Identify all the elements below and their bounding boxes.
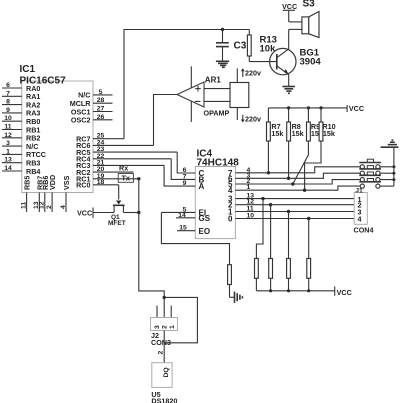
svg-text:IC1: IC1 [20, 64, 36, 75]
IC1 bottom pin 13 RB7 [33, 176, 44, 212]
IC1 left pin 13 RB3 [2, 157, 40, 168]
IC4 pin 13 row (output 3) to CON4 [235, 193, 354, 200]
svg-text:4: 4 [358, 215, 362, 224]
svg-text:2: 2 [158, 351, 165, 355]
power VCC at Q1 source [77, 208, 93, 219]
svg-text:3904: 3904 [300, 56, 322, 67]
svg-text:RC0: RC0 [76, 181, 90, 190]
svg-text:74HC148: 74HC148 [197, 157, 240, 168]
wire RC5 to IC4 pin 6 C [177, 152, 204, 178]
svg-text:Tx: Tx [122, 174, 130, 183]
svg-text:220v: 220v [245, 69, 261, 78]
IC1 right pin 24 RC6 [76, 139, 153, 150]
IC4 pin 3 row (output 6) to switch SW2 [235, 172, 360, 179]
node junction Q1 drain [137, 211, 140, 214]
resistor pulldown 2 on output 2 [269, 205, 273, 291]
IC1 right pin 26 OSC2 [71, 114, 113, 125]
wire EI pulldown run [161, 212, 229, 264]
svg-text:1: 1 [6, 148, 10, 155]
IC4 pin 4 row (output 7) to switch SW1 [235, 167, 360, 174]
svg-text:11: 11 [4, 124, 11, 131]
svg-text:27: 27 [97, 106, 105, 113]
IC1 left pin 8 RA2 [2, 99, 40, 110]
svg-text:3: 3 [154, 325, 161, 329]
wire R13 to BG1 base [249, 61, 276, 63]
svg-text:VCC: VCC [337, 288, 352, 297]
node junction R7 row [267, 171, 270, 174]
svg-text:15k: 15k [323, 129, 335, 138]
svg-text:15k: 15k [292, 129, 304, 138]
svg-text:J1: J1 [355, 187, 363, 194]
IC1 PIC16C57 microcontroller [20, 64, 94, 193]
wire Tx net down to J2 [139, 179, 164, 318]
IC1 left pin 11 RB1 [2, 124, 40, 135]
svg-text:1: 1 [247, 184, 251, 191]
IC1 left pin 1 RTCC [2, 148, 46, 159]
IC4 pin 5 EI with pulldown wire [161, 206, 206, 217]
svg-text:VSS: VSS [62, 175, 71, 190]
svg-text:VCC: VCC [77, 209, 92, 218]
svg-text:CON3: CON3 [151, 338, 171, 347]
svg-text:VDD: VDD [48, 175, 57, 190]
node junction row 10 drop [307, 217, 310, 220]
svg-text:CON4: CON4 [354, 226, 374, 235]
op-amp positive supply stub [190, 66, 192, 88]
wire op-amp - input [204, 100, 230, 102]
switch SW1 [359, 159, 394, 169]
ground below EI resistor (rotated) [230, 292, 243, 303]
connector J1 CON4 [354, 187, 374, 234]
svg-text:VCC: VCC [282, 2, 297, 11]
IC1 left pin 9 RA3 [2, 107, 40, 118]
svg-text:13: 13 [4, 157, 12, 164]
IC1 bottom pin 12 RB6 [39, 176, 50, 212]
IC4 pin 12 row (output 2) to CON4 [235, 199, 354, 206]
svg-text:S3: S3 [303, 0, 316, 10]
svg-text:0: 0 [228, 215, 233, 224]
svg-text:MFET: MFET [108, 220, 126, 227]
svg-text:18: 18 [97, 179, 105, 186]
IC1 left pin 10 RB0 [2, 115, 40, 126]
IC1 bottom pin 11 RB5 [20, 176, 31, 212]
svg-text:A: A [199, 182, 205, 191]
IC4 pin 2 row (output 5) to switch SW3 [235, 178, 360, 185]
IC1 bottom pin 4 VSS [60, 175, 71, 212]
svg-text:7: 7 [6, 90, 10, 97]
svg-text:14: 14 [178, 212, 186, 219]
ground top right [381, 140, 399, 147]
IC1 right pin 18 RC0 [76, 179, 119, 190]
IC4 pin 10 row (output 0) to CON4 [235, 213, 354, 220]
node junction R10 row [303, 189, 306, 192]
wire RC3 to IC4 pin 9 A [164, 165, 204, 191]
wire VCC to Q1 [93, 212, 114, 214]
svg-text:6: 6 [6, 82, 10, 89]
svg-text:2: 2 [46, 205, 53, 209]
svg-text:GS: GS [199, 214, 211, 223]
sensor U5 DS1820 [151, 363, 177, 403]
op-amp negative supply stub [190, 101, 192, 122]
svg-text:10: 10 [247, 213, 255, 220]
svg-text:26: 26 [97, 114, 105, 121]
ground below C3 [216, 61, 229, 67]
resistor pulldown 3 on output 1 [287, 212, 291, 291]
svg-text:9: 9 [183, 180, 187, 187]
svg-text:8: 8 [6, 99, 10, 106]
node junctions on switch common [392, 165, 395, 168]
resistor pulldown 4 on output 0 [307, 219, 311, 291]
resistor EI pulldown [228, 265, 232, 298]
svg-text:RB5: RB5 [23, 176, 32, 190]
svg-text:AR1: AR1 [205, 76, 222, 85]
svg-text:5: 5 [99, 89, 103, 96]
IC1 right pin 22 RC4 [76, 153, 171, 164]
IC4 pin 1 row (output 4) to switch SW4 [235, 184, 360, 191]
IC1 bottom pin 2 VDD [46, 175, 57, 212]
IC4 pin 15 EO [177, 225, 210, 236]
IC1 right pin 25 RC7 [76, 133, 124, 144]
IC1 right pin 5 N/C [78, 89, 112, 100]
svg-text:11: 11 [20, 202, 27, 209]
svg-text:RB4: RB4 [26, 167, 40, 176]
IC1 right pin 21 RC3 [76, 159, 164, 170]
svg-text:4: 4 [60, 205, 67, 209]
wire RC0 to Q1 gate [118, 185, 120, 200]
pulldown rail to VCC [256, 286, 351, 297]
wire switch common to ground [393, 147, 395, 186]
svg-text:28: 28 [97, 97, 105, 104]
node junction R8 row [287, 177, 290, 180]
resistor R13 10k [247, 30, 277, 62]
IC1 body box [22, 81, 93, 193]
node junction row 11 drop [287, 210, 290, 213]
resonator bottom pin with 220v arrow label [237, 108, 261, 124]
resistor pulldown 1 on output 3 [255, 199, 264, 291]
svg-text:11: 11 [247, 206, 254, 213]
svg-text:DS1820: DS1820 [151, 396, 177, 403]
switch SW4 [359, 179, 394, 189]
IC1 left pin 14 RB4 [2, 165, 40, 176]
IC4 pin 11 row (output 1) to CON4 [235, 206, 354, 213]
IC1 left pin 7 RA1 [2, 90, 40, 101]
transistor Q1 MFET [108, 201, 126, 228]
resistor R9 15k [293, 106, 323, 184]
wire op-amp + input [204, 88, 230, 90]
node junction at C3 top [221, 28, 224, 31]
IC1 left pin 3 N/C [2, 140, 38, 151]
switch SW3 [359, 172, 394, 182]
speaker S3 [289, 0, 319, 38]
svg-text:DQ: DQ [163, 367, 170, 377]
node junction Tx [137, 177, 140, 180]
IC4 right pin rows with numbers [228, 169, 233, 224]
svg-text:15k: 15k [271, 129, 283, 138]
svg-text:12: 12 [39, 201, 46, 209]
svg-text:15: 15 [179, 225, 187, 232]
pull-up rail VCC for R7-R10 [268, 104, 364, 113]
resonator top pin with 220v arrow label [237, 68, 261, 82]
wire RC7 riser to top rail [124, 30, 249, 139]
ground below BG1 emitter [283, 87, 295, 94]
resistor R7 15k [267, 108, 284, 173]
resistor R8 15k [287, 106, 304, 178]
IC4 pin 14 GS [176, 212, 211, 223]
svg-text:9: 9 [6, 107, 10, 114]
svg-text:OPAMP: OPAMP [204, 108, 230, 117]
IC4 74HC148 priority encoder [195, 149, 239, 239]
node junction J2 pin2 branch [163, 296, 166, 299]
IC1 right pin 28 MCLR [70, 97, 113, 108]
op-amp AR1 [177, 76, 230, 118]
node junction row 13 drop [261, 197, 264, 200]
wire J2 pin2 to DS1820 [158, 331, 165, 363]
svg-text:10: 10 [4, 115, 12, 122]
svg-text:12: 12 [4, 132, 12, 139]
IC1 right pin 23 RC5 [76, 146, 177, 157]
svg-text:EO: EO [199, 227, 211, 236]
svg-text:3: 3 [6, 140, 10, 147]
svg-text:Rx: Rx [119, 163, 128, 172]
svg-text:OSC2: OSC2 [71, 116, 91, 125]
node junction row 12 drop [269, 203, 272, 206]
connector J2 CON3 [151, 306, 178, 347]
resistor R10 15k [305, 106, 336, 190]
svg-text:C3: C3 [234, 41, 247, 52]
wire loop around J2 to DS1820 DQ [164, 297, 197, 342]
switch SW2 [359, 166, 394, 176]
resonator 220v network box [230, 83, 249, 108]
wire RC4 to IC4 pin 7 B [171, 159, 204, 185]
IC1 left pin 6 RA0 [2, 82, 40, 93]
power VCC at speaker [282, 2, 297, 22]
IC1 right pin 27 OSC1 [71, 106, 113, 117]
transistor BG1 3904 [270, 29, 322, 86]
svg-text:14: 14 [4, 165, 12, 172]
IC1 right pin 19 RC1 node Tx [76, 173, 139, 184]
wire op-amp output to RC6 [154, 95, 178, 146]
IC1 left pin 12 RB2 [2, 132, 40, 143]
svg-text:2: 2 [162, 325, 169, 329]
IC1 right pin 20 RC2 node Rx [76, 163, 133, 177]
svg-text:1: 1 [169, 325, 176, 329]
node junction R9 row [291, 182, 294, 185]
wire Q1 drain to Tx net [123, 212, 138, 214]
svg-text:220v: 220v [245, 115, 261, 124]
svg-text:VCC: VCC [349, 104, 364, 113]
capacitor C3 [216, 30, 247, 62]
